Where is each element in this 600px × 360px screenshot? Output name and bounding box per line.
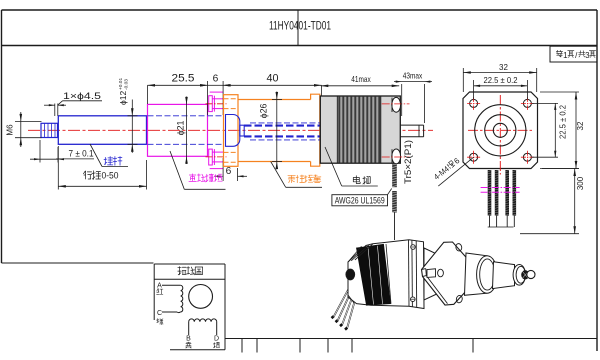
- lead screw hidden lines (blue dashed): [244, 125, 401, 127]
- dim 32 right: [540, 91, 579, 93]
- push rod body: [58, 116, 146, 145]
- bearing clamp screw top (magenta): [210, 91, 223, 93]
- dim 6 flange thickness (bottom): [222, 158, 224, 181]
- svg-text:43max: 43max: [403, 71, 423, 80]
- linear bearing body (magenta): [148, 104, 208, 156]
- iso: bearing tube: [424, 248, 442, 300]
- svg-text:1×ϕ4.5: 1×ϕ4.5: [63, 91, 101, 101]
- centerline of assembly: [28, 129, 433, 131]
- iso: motor lamination stack (black): [357, 244, 391, 305]
- front view square flange outline: [463, 92, 538, 169]
- svg-text:32: 32: [576, 121, 585, 130]
- iso: motor rear cap edges: [355, 244, 373, 260]
- dim 22.5 +-0.2 top: [473, 80, 475, 99]
- iso: motor rear boss: [346, 269, 355, 280]
- title strip divider: [297, 10, 299, 46]
- phi12 rod diameter dimension: [128, 115, 138, 117]
- partial sheet cut line: [2, 262, 154, 264]
- title block column ticks: [241, 339, 243, 353]
- 4-M4 depth 6 label: [438, 157, 473, 186]
- iso: motor front cap / plate edges: [408, 240, 411, 306]
- svg-text:ϕ12: ϕ12: [118, 91, 128, 105]
- iso: rod end ring: [513, 265, 525, 286]
- svg-text:41max: 41max: [351, 75, 371, 84]
- dim phi21 bearing bore: [186, 97, 188, 165]
- svg-text:+0.01: +0.01: [118, 78, 124, 90]
- dim 40 sleeve length: [321, 85, 323, 95]
- page border frame: [2, 9, 598, 11]
- dim 41max motor length: [321, 85, 399, 87]
- pilot circle: [475, 105, 526, 156]
- svg-text:32: 32: [499, 63, 508, 72]
- bearing clamp screw bottom (magenta): [210, 168, 223, 170]
- dim 22.5 +-0.2 right: [532, 102, 558, 104]
- svg-text:ϕ26: ϕ26: [259, 104, 269, 119]
- svg-text:40: 40: [267, 72, 279, 84]
- wire break marks (magenta): [481, 187, 520, 189]
- 1 x phi4.5 hole dimension: [54, 104, 56, 117]
- dim 25.5 bearing length: [148, 84, 208, 86]
- svg-text:3: 3: [585, 51, 590, 60]
- svg-text:A: A: [157, 283, 162, 290]
- wiring diagram box: [154, 263, 225, 265]
- dim phi26 sleeve diameter: [276, 92, 278, 170]
- svg-text:300: 300: [576, 176, 585, 190]
- iso: big mounting flange: [422, 242, 474, 305]
- positioning sleeve body (orange): [238, 99, 311, 101]
- M6 dimension: [15, 120, 42, 122]
- rod end socket dome (blue): [226, 115, 240, 147]
- svg-text:ϕ21: ϕ21: [176, 121, 186, 136]
- phase B coil (horizontal): [189, 319, 217, 322]
- 4 mounting holes M4: [470, 99, 478, 107]
- svg-text:Tr5×2(P1): Tr5×2(P1): [403, 140, 413, 184]
- AWG26 UL1569 wire spec label: [332, 195, 388, 206]
- iso: tube hub on flange: [427, 269, 436, 278]
- svg-text:0-50: 0-50: [102, 171, 119, 182]
- motor front end cap: [320, 96, 337, 163]
- svg-text:7 ± 0.1: 7 ± 0.1: [69, 149, 94, 160]
- svg-text:6: 6: [213, 73, 219, 84]
- motor rear shaft stub: [400, 124, 423, 126]
- svg-text:1: 1: [563, 51, 568, 60]
- ding-wei-lv-tao (positioning sleeve) label: [271, 162, 286, 188]
- dim 300 wire length: [542, 168, 579, 170]
- svg-text:25.5: 25.5: [172, 72, 195, 84]
- rotor circle: [189, 285, 213, 309]
- svg-text:6: 6: [226, 166, 232, 177]
- dim 43max: [401, 84, 403, 116]
- lead wires front view: [488, 170, 492, 216]
- iso: tip ball: [527, 270, 535, 278]
- motor tie rod screw bottom: [392, 149, 401, 164]
- title block top line: [225, 338, 597, 340]
- stroke 0-50 dimension: [57, 146, 59, 190]
- sleeve right end block (orange): [311, 94, 320, 166]
- svg-text:D: D: [214, 336, 219, 343]
- tui-gan (push rod) label: [90, 144, 102, 167]
- iso: plate corner screws: [411, 245, 416, 250]
- motor tie rod screw top: [392, 97, 401, 112]
- motor outline: [320, 96, 400, 163]
- svg-text:22.5 ± 0.2: 22.5 ± 0.2: [484, 76, 519, 85]
- svg-text:11HY0401-TD01: 11HY0401-TD01: [269, 21, 331, 33]
- boss circle: [485, 115, 516, 146]
- shaft circle: [493, 123, 507, 137]
- motor lead wire pigtail: [392, 163, 397, 187]
- jie-xian-tu (wiring diagram) title: [178, 267, 186, 275]
- iso: push rod: [493, 262, 515, 289]
- motor rear end cap: [381, 96, 401, 163]
- svg-text:AWG26 UL1569: AWG26 UL1569: [335, 195, 385, 205]
- svg-text:B: B: [186, 336, 191, 343]
- iso: flange thickness edge: [422, 269, 448, 304]
- page number box: [550, 46, 597, 62]
- iso: front cylinder: [465, 253, 488, 295]
- dim 6 gap: [207, 81, 209, 115]
- front view center crosshair: [468, 129, 533, 131]
- iso: lead wires: [334, 284, 352, 318]
- 7 +-0.1 stud length dimension: [39, 140, 41, 163]
- iso: threaded tip knob (dark): [521, 270, 529, 279]
- svg-text:22.5 ± 0.2: 22.5 ± 0.2: [559, 104, 568, 139]
- positioning sleeve flange (orange): [224, 95, 239, 167]
- dim 32 top: [462, 68, 464, 92]
- dian-ji (motor) label: [325, 147, 342, 186]
- hidden rod inside bearing (blue dashed): [148, 115, 225, 117]
- svg-text:-0.03: -0.03: [123, 79, 129, 90]
- M6 threaded stud of push rod: [41, 123, 58, 137]
- iso: motor body outline: [348, 240, 424, 309]
- svg-text:M6: M6: [6, 124, 15, 136]
- zhi-xian-zhou-cheng (linear bearing) label: [170, 151, 184, 189]
- phase A coil (vertical): [181, 285, 183, 312]
- motor lamination stack: [337, 96, 381, 163]
- iso: flange holes: [455, 243, 462, 252]
- svg-text:C: C: [157, 310, 162, 317]
